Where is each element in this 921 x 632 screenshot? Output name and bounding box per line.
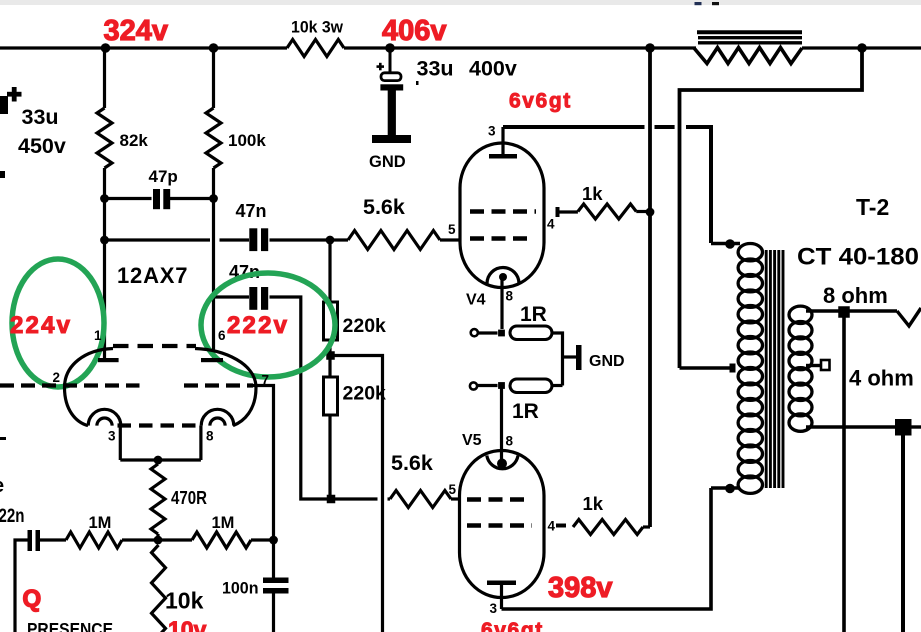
wire 8 ohm tap [806, 309, 897, 312]
pin label 2 [53, 370, 61, 385]
transformer secondary winding [789, 306, 812, 431]
wire primary top [711, 242, 740, 245]
label 47p [149, 167, 178, 186]
capacitor 100n [263, 578, 289, 594]
label GND middle [589, 353, 625, 370]
pin label 3 V5 [490, 601, 498, 616]
plate V5 [487, 581, 516, 610]
pin label 1 [94, 328, 102, 343]
wire 220k bottom [328, 415, 331, 499]
svg-text:33u: 33u [417, 57, 454, 81]
svg-text:7: 7 [262, 373, 270, 388]
node 47p left [100, 194, 109, 203]
label fragment left1 [0, 437, 6, 440]
node choke output [857, 43, 867, 53]
svg-text:GND: GND [589, 353, 625, 370]
label 8 ohm [823, 283, 888, 308]
cathode V4 [487, 268, 519, 284]
tube 12AX7 top dashed [113, 344, 196, 348]
label 1R upper [520, 303, 547, 326]
wire 1M left to junction [122, 538, 158, 541]
label 82k [120, 131, 149, 150]
capacitor 47n upper [249, 228, 268, 251]
resistor 100k [206, 108, 221, 168]
wire 1R upper to gnd riser [552, 333, 563, 386]
svg-text:3: 3 [488, 124, 496, 139]
label 12AX7 [117, 263, 188, 288]
page edge bar [0, 0, 921, 5]
node 47p right [209, 194, 218, 203]
wire top to 100k [212, 48, 215, 108]
svg-text:47p: 47p [149, 167, 178, 186]
label 222v [227, 312, 289, 339]
label Q [23, 586, 42, 613]
label 10k 3w [291, 18, 344, 37]
wire junction to 1M right [158, 538, 192, 541]
label 1R lower [512, 400, 539, 423]
capacitor 47n lower [249, 287, 268, 310]
svg-text:222v: 222v [227, 312, 289, 339]
svg-text:100n: 100n [222, 579, 259, 598]
resistor 10k cathode [152, 545, 166, 632]
wire secondary common down [901, 435, 905, 632]
resistor 82k [97, 108, 112, 168]
wire choke output down-left [680, 48, 863, 368]
svg-text:470R: 470R [171, 488, 207, 508]
svg-text:8: 8 [506, 289, 514, 304]
label T-2 [856, 194, 889, 220]
capacitor 22n [28, 530, 41, 551]
wire 47n-2 right then down [270, 297, 330, 499]
plate bar pin6 [201, 358, 223, 362]
node V5 grid junction [327, 495, 336, 504]
wire tail branch [335, 356, 383, 632]
resistor R 10k 3w [287, 40, 344, 57]
wire 47n-1 left [105, 238, 211, 241]
wire choke to right edge [802, 46, 921, 49]
label CT 40-180 [797, 244, 919, 271]
svg-text:22n: 22n [0, 506, 25, 527]
wire 1R lower to riser [552, 384, 563, 387]
tube V5 envelope [460, 451, 545, 598]
svg-text:T-2: T-2 [856, 194, 889, 220]
svg-text:33u: 33u [22, 105, 59, 129]
svg-text:8: 8 [206, 429, 214, 444]
node 47n left [100, 236, 109, 245]
wire 1M right to 100n rail [251, 538, 274, 541]
node J2 [498, 382, 505, 389]
capacitor 33u 400v [377, 48, 419, 138]
wire 47n-1 right [270, 238, 349, 241]
node 100n rail [269, 536, 278, 545]
svg-text:220k: 220k [343, 383, 387, 405]
annotation circle 224v [12, 259, 104, 387]
svg-text:10k: 10k [165, 588, 204, 614]
wire 47p right [170, 197, 214, 200]
label 220k upper [343, 315, 387, 337]
label fragment left e [0, 475, 4, 497]
svg-text:Q: Q [23, 586, 42, 613]
node screen rail V4 [646, 208, 655, 217]
svg-text:3: 3 [108, 429, 116, 444]
svg-text:6v6gt: 6v6gt [509, 90, 572, 113]
wire secondary bottom [806, 425, 895, 428]
grid dashed line pin 2 [0, 383, 140, 387]
label 398v [548, 572, 613, 604]
svg-text:10v: 10v [168, 617, 207, 632]
label 10k bottom [165, 588, 204, 614]
label 470R [171, 488, 207, 508]
svg-text:12AX7: 12AX7 [117, 263, 188, 288]
label 47n upper [236, 201, 267, 221]
cropped marks top right [695, 2, 720, 5]
svg-text:1M: 1M [212, 514, 235, 532]
svg-text:2: 2 [53, 370, 61, 385]
svg-text:1M: 1M [89, 514, 112, 532]
wire 8 ohm down [842, 312, 846, 632]
svg-text:1k: 1k [583, 493, 604, 514]
label 5.6k lower [391, 451, 433, 475]
svg-text:8 ohm: 8 ohm [823, 283, 888, 308]
label 1k V5 [583, 493, 604, 514]
wire 220k top [328, 240, 331, 302]
svg-text:V5: V5 [462, 432, 482, 449]
label 33u 400v [417, 57, 517, 81]
wire gnd tap [563, 355, 577, 358]
pin label 8 V4 [506, 289, 514, 304]
pin label 6 [218, 328, 226, 343]
capacitor 47p [153, 189, 170, 209]
wire secondary bottom right [911, 425, 921, 428]
svg-text:4: 4 [547, 217, 555, 232]
resistor 1R upper [510, 326, 552, 340]
svg-text:GND: GND [369, 153, 406, 171]
svg-text:5.6k: 5.6k [391, 451, 433, 475]
label GND 33u [369, 153, 406, 171]
svg-text:10k 3w: 10k 3w [291, 18, 344, 37]
pin label 8 12AX7 [206, 429, 214, 444]
svg-text:450v: 450v [18, 134, 66, 158]
pin label 4 V4 [547, 217, 555, 232]
wire tp2 to J2 [478, 384, 498, 387]
test point circle 1 [471, 329, 478, 336]
resistor 470R [151, 464, 165, 534]
svg-text:400v: 400v [469, 57, 517, 81]
label 100n [222, 579, 259, 598]
svg-text:406v: 406v [382, 15, 447, 47]
wire 47n-2 left [214, 295, 249, 298]
pin label 5 V4 [448, 222, 456, 237]
wire 220k mid [328, 340, 331, 352]
wire 324v down to 82k [103, 48, 106, 108]
wire 22n to 1M [40, 538, 66, 541]
svg-text:PRESENCE: PRESENCE [27, 619, 113, 632]
wire center tap [680, 366, 732, 369]
wire J2 to V5 [500, 386, 503, 463]
choke core lines [697, 32, 802, 43]
svg-text:4: 4 [548, 519, 556, 534]
wire 470R to 1M rail [156, 534, 159, 540]
svg-text:1: 1 [94, 328, 102, 343]
resistor 5.6k upper [348, 231, 440, 250]
svg-text:6: 6 [218, 328, 226, 343]
resistor 220k upper [324, 302, 338, 340]
node 100k top [209, 43, 219, 53]
grid dashed line pin 7 [184, 383, 253, 387]
resistor 1R lower [510, 379, 552, 393]
wire 82k to plate V1 pin1 [103, 168, 106, 358]
svg-text:4 ohm: 4 ohm [849, 366, 914, 391]
wire pin7 stub [250, 386, 274, 541]
pin 4 tick V4 [556, 207, 560, 217]
node 406v [385, 43, 395, 53]
tube 12AX7 bottom dashed [118, 423, 200, 427]
wire V5 plate to transformer [502, 488, 712, 609]
label 5.6k upper [363, 195, 405, 219]
pin label 7 [262, 373, 270, 388]
label 1M left [89, 514, 112, 532]
pin 4 dash V5 [556, 524, 566, 528]
node secondary bottom [895, 419, 912, 436]
svg-text:5: 5 [449, 482, 457, 497]
wire V4 cathode down [500, 277, 503, 329]
label 33u 450v [18, 105, 66, 158]
cathode arc right [201, 409, 234, 425]
svg-text:224v: 224v [10, 312, 72, 339]
node screen rail top [645, 43, 655, 53]
svg-text:100k: 100k [228, 131, 266, 150]
wire screen rail [648, 48, 652, 527]
svg-text:82k: 82k [120, 131, 149, 150]
label V4 [466, 292, 486, 309]
transformer primary winding [738, 244, 762, 494]
plate V4 [489, 127, 517, 159]
wire gap to 5.6k [388, 497, 391, 500]
svg-text:5: 5 [448, 222, 456, 237]
wire 4 ohm tap [806, 364, 821, 367]
resistor 1k V5 [573, 520, 643, 535]
tube V4 envelope [460, 143, 544, 288]
wire junction to gap [335, 497, 378, 500]
pin label 3 V4 [488, 124, 496, 139]
wire 22n left [15, 540, 28, 632]
wire 100n rail upper [272, 540, 275, 578]
label 1k V4 [582, 183, 603, 204]
svg-text:3: 3 [490, 601, 498, 616]
svg-text:324v: 324v [104, 15, 169, 47]
wire cathodes join [120, 458, 201, 461]
wire cathode 8 down [199, 426, 202, 460]
svg-text:e: e [0, 475, 4, 497]
choke winding sawtooth [694, 48, 802, 64]
wire 100k to plate V2 pin6 [212, 168, 215, 358]
resistor 1M right [192, 532, 251, 548]
pin label 4 V5 [548, 519, 556, 534]
label V5 [462, 432, 482, 449]
svg-text:5.6k: 5.6k [363, 195, 405, 219]
node 220k mid [326, 351, 335, 360]
label 6v6gt upper [509, 90, 572, 113]
resistor 5.6k lower [390, 491, 451, 508]
wire V4 plate to transformer [503, 127, 711, 243]
wire 47n-1 mid [220, 238, 250, 241]
node cathode junction [154, 456, 163, 465]
wire 220k mid2 [328, 360, 331, 378]
wire 47p left [105, 197, 152, 200]
label 10v [168, 617, 207, 632]
center tap tick [730, 364, 736, 373]
svg-text:47n: 47n [236, 201, 267, 221]
svg-text:220k: 220k [343, 315, 387, 337]
label 324v [104, 15, 169, 47]
label PRESENCE [27, 619, 113, 632]
svg-text:1k: 1k [582, 183, 603, 204]
screen grid V4 dashed [470, 209, 536, 213]
ground GND under 33u [372, 135, 411, 143]
resistor 1M left [66, 532, 122, 548]
resistor 1k V4 [578, 204, 636, 219]
node J1 [498, 330, 505, 337]
node 1M junction [154, 536, 163, 545]
svg-text:8: 8 [506, 434, 514, 449]
test point circle 2 [470, 382, 477, 389]
speaker notch [897, 308, 921, 326]
ground bar middle [576, 345, 582, 370]
node primary bottom [725, 484, 735, 494]
pin label 3 12AX7 [108, 429, 116, 444]
wire V4 pin4 to 1k [560, 210, 578, 213]
label 224v [10, 312, 72, 339]
svg-text:CT 40-180: CT 40-180 [797, 244, 919, 271]
node primary top [725, 239, 735, 249]
wire cathode 3 down [119, 426, 122, 460]
svg-text:6v6gt: 6v6gt [481, 619, 544, 632]
label 1M right [212, 514, 235, 532]
svg-text:V4: V4 [466, 292, 486, 309]
cathode arc left [88, 409, 121, 425]
cathode V5 [487, 456, 518, 469]
pin label 5 V5 [449, 482, 457, 497]
wire primary bottom [711, 486, 740, 489]
label 4 ohm [849, 366, 914, 391]
wire 100n rail lower [272, 594, 275, 632]
capacitor 33u 450v fragment [0, 87, 22, 114]
transformer core [766, 250, 783, 488]
tube 12AX7 envelope right [195, 349, 256, 426]
wire 406v node to choke [344, 46, 696, 49]
node 324v [101, 43, 111, 53]
left edge dot [0, 171, 5, 178]
resistor 220k lower [324, 377, 338, 415]
plate bar pin1 [98, 358, 119, 362]
label 22n [0, 506, 25, 527]
4 ohm terminal [821, 360, 830, 370]
label 220k lower [343, 383, 387, 405]
node 8 ohm [838, 306, 850, 318]
wire 1k V5 to rail [643, 525, 650, 528]
node 220k top [326, 236, 335, 245]
svg-text:398v: 398v [548, 572, 613, 604]
svg-text:1R: 1R [520, 303, 547, 326]
screen grid V5 dashed [467, 523, 532, 527]
pin label 8 V5 [506, 434, 514, 449]
tube 12AX7 envelope left [65, 349, 114, 426]
control grid V4 dashed [470, 236, 532, 240]
svg-text:1R: 1R [512, 400, 539, 423]
wire B+ rail 324v-406v [0, 46, 287, 49]
wire tp1 to J1 [478, 331, 498, 334]
label 100k [228, 131, 266, 150]
control grid V5 dashed [467, 497, 531, 501]
annotation circle 222v [201, 273, 335, 377]
wire 5.6k to V5 pin5 [451, 497, 461, 500]
label 47n lower [229, 262, 260, 282]
wire 1k V4 to rail [636, 210, 650, 213]
label 406v [382, 15, 447, 47]
wire 5.6k to V4 pin5 [440, 238, 461, 241]
label 6v6gt lower [481, 619, 544, 632]
